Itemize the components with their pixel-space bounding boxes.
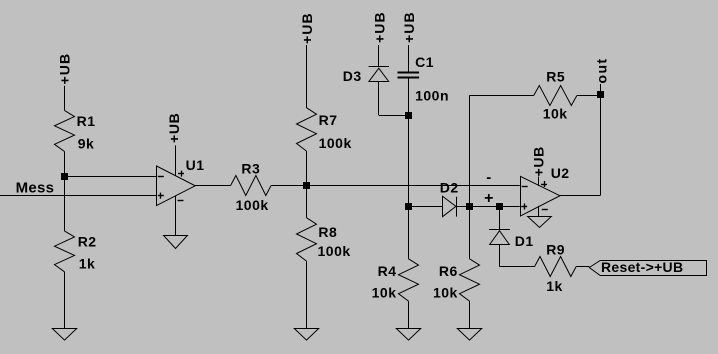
svg-text:R8: R8 — [318, 224, 337, 240]
svg-text:C1: C1 — [415, 54, 434, 70]
svg-text:R9: R9 — [546, 242, 565, 258]
svg-text:R3: R3 — [241, 161, 260, 177]
svg-text:+UB: +UB — [57, 53, 73, 85]
svg-text:+UB: +UB — [166, 113, 182, 144]
svg-text:1k: 1k — [79, 256, 96, 272]
svg-text:10k: 10k — [433, 284, 458, 300]
svg-text:out: out — [594, 58, 610, 84]
svg-text:D3: D3 — [343, 68, 362, 84]
svg-text:R7: R7 — [319, 112, 338, 128]
svg-text:9k: 9k — [78, 135, 95, 151]
svg-text:U2: U2 — [551, 165, 570, 181]
svg-text:+UB: +UB — [299, 12, 315, 44]
svg-text:U1: U1 — [186, 157, 205, 173]
svg-text:R4: R4 — [378, 263, 397, 279]
svg-text:100k: 100k — [236, 197, 269, 213]
svg-text:D2: D2 — [440, 180, 459, 196]
svg-text:-: - — [486, 169, 492, 186]
svg-text:R2: R2 — [78, 234, 97, 250]
svg-text:100n: 100n — [415, 88, 449, 104]
svg-text:Mess: Mess — [16, 180, 55, 197]
svg-text:10k: 10k — [543, 106, 568, 122]
svg-text:+UB: +UB — [531, 146, 547, 177]
svg-text:100k: 100k — [319, 135, 352, 151]
svg-text:Reset->+UB: Reset->+UB — [601, 259, 683, 275]
svg-text:+UB: +UB — [401, 11, 417, 43]
svg-text:+: + — [484, 190, 494, 207]
svg-text:R6: R6 — [439, 263, 458, 279]
svg-text:D1: D1 — [515, 233, 534, 249]
svg-text:R1: R1 — [77, 113, 96, 129]
svg-text:100k: 100k — [318, 243, 351, 259]
svg-text:R5: R5 — [546, 68, 565, 84]
svg-text:10k: 10k — [372, 284, 397, 300]
svg-text:+UB: +UB — [372, 11, 388, 43]
svg-text:1k: 1k — [546, 278, 563, 294]
